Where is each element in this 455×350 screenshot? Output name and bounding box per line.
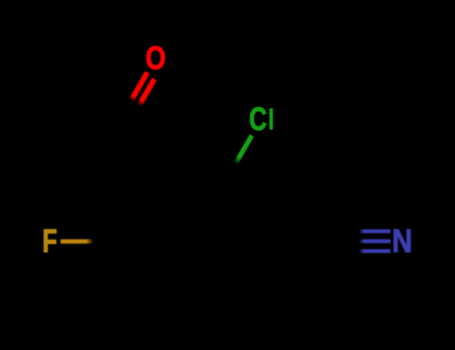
ring inner double bond C5-C6	[161, 291, 221, 295]
bond C4-F (gold fading to black)	[61, 239, 121, 243]
nitrile triple bond, bottom line	[336, 249, 390, 253]
bond C1 to nitrile carbon	[261, 239, 331, 244]
svg-text:N: N	[392, 223, 412, 259]
ring bond C6-C1	[226, 241, 261, 302]
nitrile triple bond, middle line	[331, 239, 390, 243]
ring bond C3-C4	[120, 180, 155, 241]
ring inner double bond C1-C2	[221, 189, 251, 235]
aldehyde C=O double bond, line 2	[129, 79, 155, 124]
svg-text:O: O	[146, 40, 166, 76]
benzene ring (black bonds, invisible on black background)	[120, 119, 331, 302]
aldehyde C=O double bond, line 1 (red fading to black)	[120, 72, 147, 119]
nitrile triple bond, top line (blue fading to black)	[337, 229, 390, 233]
svg-text:C: C	[249, 101, 267, 137]
bond C2-Cl (green fading to black)	[226, 135, 252, 180]
ring bond C1-C2	[226, 180, 261, 241]
ring bond C5-C6	[155, 300, 225, 304]
ring inner double bond C3-C4	[131, 189, 161, 235]
ring bond C2-C3	[155, 178, 225, 182]
ring bond C4-C5	[120, 241, 155, 302]
bond C3 to aldehyde carbon	[120, 119, 155, 180]
atom label Cl (chlorine), letter l	[269, 108, 273, 129]
svg-text:F: F	[42, 223, 57, 259]
